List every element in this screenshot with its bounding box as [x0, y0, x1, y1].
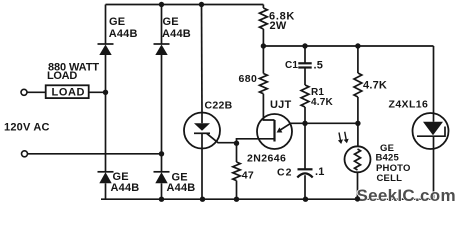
wire mid rail (below 6.8K to zener column) [263, 45, 433, 47]
svg-text:GE: GE [109, 16, 125, 28]
node bottom rail / photocell [355, 196, 360, 201]
node bottom rail / C2 [303, 197, 308, 202]
load box LOAD [46, 85, 89, 98]
wire column x=161.5 D4 to bottom rail [161, 183, 163, 199]
zener symbol: triangle and bent cathode bar [433, 113, 435, 122]
node bottom rail / SCR cathode [200, 197, 205, 202]
diode D2 GE A44B (top middle) [154, 44, 170, 55]
terminal AC hot [21, 89, 27, 95]
svg-text:A44B: A44B [109, 28, 138, 40]
wire column x=105.5 top-rail to diode D1 [105, 5, 107, 45]
wire AC terminal to bridge node (crosses column1) [28, 153, 162, 155]
svg-text:2W: 2W [270, 20, 287, 32]
capacitor C2 .1 [304, 123, 306, 169]
node emitter / 4.7K photocell junction [355, 121, 360, 126]
resistor 47 [236, 143, 238, 162]
svg-text:.1: .1 [315, 166, 325, 178]
photocell GE B425 envelope [345, 146, 371, 172]
svg-text:120V AC: 120V AC [4, 121, 50, 133]
svg-text:A44B: A44B [111, 182, 140, 194]
node bottom rail / R47 [234, 197, 239, 202]
svg-text:B425: B425 [376, 152, 400, 163]
node mid rail / 4.7K junction [355, 43, 360, 48]
wire node to photocell [357, 123, 359, 146]
svg-text:A44B: A44B [167, 182, 196, 194]
capacitor C1 .5 [304, 46, 306, 63]
svg-text:.5: .5 [314, 60, 324, 72]
svg-text:C2: C2 [277, 166, 292, 178]
svg-text:4.7K: 4.7K [363, 79, 387, 91]
wire 680 to UJT base1 [263, 94, 274, 120]
svg-text:LOAD: LOAD [47, 70, 77, 82]
wire UJT emitter to R1/C2 node and 4.7K node [290, 122, 358, 124]
wire photocell to bottom rail [357, 172, 359, 199]
svg-text:C1: C1 [285, 60, 298, 71]
wire terminal to LOAD box [27, 91, 46, 93]
zener Z4XL16 envelope [413, 113, 449, 149]
svg-text:SeekIC.com: SeekIC.com [357, 186, 456, 205]
wire column x=161.5 D2 to D4 through AC node [161, 55, 163, 172]
terminal AC neutral [22, 151, 28, 157]
node mid rail / 6.8K junction [261, 43, 266, 48]
wire column x=105.5 D1 to D3 through load node [105, 55, 107, 172]
SCR C22B symbol: anode lead, triangle, cathode bar [201, 113, 203, 123]
resistor 4.7K (right) [357, 46, 359, 73]
wire SCR anode [201, 5, 204, 114]
wire bottom DC- rail [101, 198, 434, 200]
wire top DC+ rail [106, 4, 264, 6]
wire mid rail right corner down to zener [433, 46, 435, 113]
node gate junction [234, 141, 239, 146]
svg-text:CELL: CELL [377, 173, 403, 184]
SCR gate lead [207, 133, 237, 142]
svg-text:A44B: A44B [162, 28, 191, 40]
wire SCR cathode to bottom rail [201, 149, 203, 200]
light arrow 2 [344, 132, 349, 144]
SCR C22B envelope [184, 113, 220, 149]
node bottom rail / photocell (overlay dot) [355, 196, 360, 201]
resistor 6.8K 2W [262, 5, 264, 9]
diode D1 GE A44B (top left) [98, 44, 114, 55]
resistor 680 [262, 46, 264, 74]
svg-text:GE: GE [163, 16, 179, 28]
wire column x=161.5 top rail to diode D2 [161, 5, 163, 45]
svg-text:C22B: C22B [205, 99, 233, 111]
node top rail / SCR anode junction [199, 2, 204, 7]
svg-text:680: 680 [239, 73, 258, 85]
wire column x=105.5 D3 to bottom rail [105, 183, 107, 199]
node bottom rail / column2 [159, 197, 164, 202]
diode D3 GE A44B (bottom left) [98, 172, 114, 184]
node load junction [103, 90, 108, 95]
svg-text:4.7K: 4.7K [311, 97, 334, 108]
node mid rail / C1 junction [302, 43, 307, 48]
photocell internal resistor zigzag [355, 149, 361, 170]
wire zener to bottom rail [433, 149, 435, 199]
node AC input junction [159, 151, 164, 156]
svg-text:LOAD: LOAD [52, 87, 86, 99]
wire 47 to bottom rail [236, 181, 238, 200]
light arrow 1 [338, 133, 343, 145]
resistor R1 47K [301, 85, 309, 107]
node emitter / R1 C2 junction [302, 121, 307, 126]
UJT emitter lead with arrow [279, 124, 290, 131]
wire gate node up to UJT base2 [237, 139, 275, 143]
wire LOAD box to bridge node [89, 91, 106, 93]
UJT 2N2646 envelope [257, 114, 292, 149]
svg-text:Z4XL16: Z4XL16 [389, 99, 429, 111]
svg-text:UJT: UJT [270, 99, 291, 111]
UJT base bar [273, 120, 275, 142]
svg-text:47: 47 [242, 170, 254, 182]
node top rail / column2 junction [159, 2, 164, 7]
diode D4 GE A44B (bottom middle) [154, 172, 170, 184]
svg-text:2N2646: 2N2646 [247, 153, 286, 165]
